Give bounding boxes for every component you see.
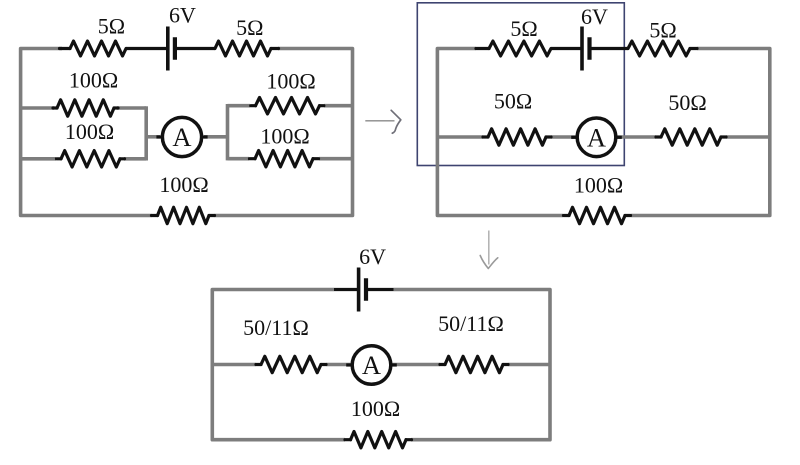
resistor 100Ω (right loop, bottom branch) [250,151,319,167]
wire: bottom circuit outer border left part [212,290,345,440]
resistor 50/11Ω (bottom circuit, left) [256,356,326,372]
wire: right circuit left border [437,49,563,216]
svg-text:100Ω: 100Ω [69,68,118,93]
wire: right circuit right border [631,49,770,216]
svg-text:5Ω: 5Ω [236,15,263,40]
resistor 5Ω (right circuit, left of battery) [476,41,551,56]
resistor 5Ω (left circuit, right of battery) [215,41,279,56]
highlight box (blue rectangle) [417,3,624,166]
svg-text:50/11Ω: 50/11Ω [438,311,504,336]
wire: left loop right vertical [144,106,148,160]
resistor 5Ω (right circuit, right of battery) [628,41,697,56]
svg-text:100Ω: 100Ω [351,396,400,421]
wire: ammeter to right loop [204,135,229,139]
resistor 100Ω (left loop, bottom branch) [57,151,125,167]
wire: right circuit middle row right lead [726,135,770,139]
resistor 100Ω (bottom circuit, bottom) [345,432,412,448]
wire: left loop output to ammeter [146,135,160,139]
wire: bottom circuit middle row ammeter leads [326,363,440,367]
wire: right loop bottom branch leads [228,157,355,161]
battery 6V (right circuit) [551,27,628,71]
wire: bottom circuit middle row right lead [508,363,550,367]
ammeter A2 (right circuit) [571,118,622,157]
resistor 50/11Ω (bottom circuit, right) [440,356,508,372]
wire: left circuit outer border left+bottom-left [21,49,152,216]
resistor 5Ω (left circuit, left of battery) [60,41,127,56]
wire: right circuit middle row ammeter leads [551,135,656,139]
ammeter A3 (bottom circuit) [346,346,397,385]
wire: bottom circuit middle row left lead [212,363,256,367]
wire: right loop left vertical [226,104,230,160]
resistor 50Ω (right circuit, left) [483,129,551,145]
svg-text:5Ω: 5Ω [510,16,537,41]
svg-text:50Ω: 50Ω [668,90,706,115]
battery 6V (left circuit) [126,27,215,71]
arrow: left circuit to right circuit [365,110,401,133]
svg-text:50/11Ω: 50/11Ω [243,315,309,340]
wire: left loop bottom branch leads [20,157,147,161]
wire: right loop top branch leads [228,104,355,108]
svg-text:5Ω: 5Ω [649,17,676,42]
ammeter A1 (left circuit) [156,117,207,156]
svg-text:6V: 6V [581,4,608,29]
svg-text:100Ω: 100Ω [260,123,309,148]
svg-text:100Ω: 100Ω [65,119,114,144]
resistor 100Ω (right loop, top branch) [251,98,324,114]
resistor 100Ω (right circuit, bottom) [564,207,631,223]
arrow: right circuit to bottom circuit [480,231,498,269]
resistor 100Ω (left loop, top branch) [53,100,118,116]
svg-text:A: A [362,350,381,380]
svg-text:6V: 6V [359,244,386,269]
svg-text:6V: 6V [169,3,196,28]
svg-text:A: A [587,122,606,152]
wire: left circuit outer border top-right + right side [215,49,353,216]
wire: left loop top branch leads [20,106,147,110]
resistor 100Ω (left circuit, bottom wire) [152,207,215,223]
battery 6V (bottom circuit) [334,268,394,312]
wire: right circuit middle row left lead [437,135,483,139]
svg-text:100Ω: 100Ω [159,172,208,197]
svg-text:100Ω: 100Ω [574,173,623,198]
wire: bottom circuit outer border right part [394,290,551,440]
svg-text:50Ω: 50Ω [494,89,532,114]
svg-text:5Ω: 5Ω [98,13,125,38]
svg-text:100Ω: 100Ω [266,68,315,93]
svg-text:A: A [172,122,191,152]
resistor 50Ω (right circuit, right) [656,129,726,145]
